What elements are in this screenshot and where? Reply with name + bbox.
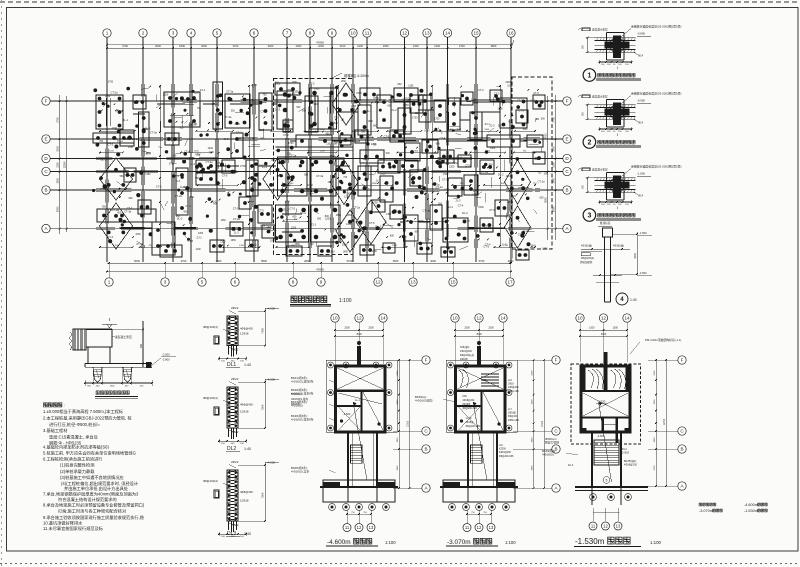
svg-text:1750: 1750: [337, 222, 343, 225]
svg-text:1050: 1050: [198, 233, 204, 235]
svg-text:1450: 1450: [346, 224, 352, 226]
svg-text:CT-2a: CT-2a: [111, 91, 119, 95]
svg-text:CT-1a: CT-1a: [366, 135, 374, 139]
svg-text:JL-3: JL-3: [530, 98, 536, 102]
svg-text:600: 600: [305, 188, 310, 191]
svg-text:2800: 2800: [304, 259, 310, 263]
svg-text:1500: 1500: [484, 129, 490, 131]
svg-text:17: 17: [507, 280, 513, 285]
svg-text:600: 600: [334, 122, 339, 125]
svg-text:15: 15: [473, 31, 479, 36]
svg-text:ZJ-1: ZJ-1: [311, 223, 317, 227]
svg-text:3000: 3000: [601, 333, 607, 336]
svg-text:3500: 3500: [393, 259, 399, 263]
svg-text:7000: 7000: [261, 327, 265, 333]
svg-text:1500: 1500: [259, 129, 265, 132]
svg-text:CT-3a: CT-3a: [284, 183, 292, 187]
svg-text:1500: 1500: [464, 327, 470, 330]
svg-text:950: 950: [260, 138, 265, 141]
svg-text:1450: 1450: [260, 226, 266, 228]
svg-text:1450: 1450: [343, 252, 349, 254]
svg-text:JL-1: JL-1: [364, 230, 370, 234]
svg-text:CT-5: CT-5: [369, 221, 375, 225]
svg-text:3900: 3900: [552, 206, 555, 212]
svg-text:CT-5: CT-5: [261, 110, 267, 114]
svg-text:5: 5: [216, 31, 219, 36]
svg-text:-0.800: -0.800: [637, 32, 645, 36]
svg-text:1500: 1500: [336, 214, 342, 217]
svg-text:12: 12: [357, 525, 362, 530]
svg-text:CT-5: CT-5: [156, 184, 162, 188]
svg-text:-4.600m: -4.600m: [744, 503, 758, 507]
svg-text:-2.800: -2.800: [162, 358, 170, 362]
svg-text:1500: 1500: [356, 92, 362, 95]
svg-text:ZJ-1: ZJ-1: [456, 128, 462, 132]
svg-text:-4.600: -4.600: [597, 434, 605, 438]
svg-text:600: 600: [296, 106, 301, 109]
svg-text:BKZ5(塔6):: BKZ5(塔6):: [624, 459, 637, 463]
svg-text:1450: 1450: [105, 96, 111, 98]
svg-text:1350: 1350: [386, 214, 392, 216]
svg-text:2600: 2600: [383, 44, 389, 48]
svg-text:LL-1: LL-1: [355, 399, 360, 402]
svg-text:DL-3: DL-3: [568, 464, 574, 467]
svg-text:DL-2: DL-2: [101, 158, 107, 162]
svg-text:2000: 2000: [552, 145, 555, 151]
svg-text:4Φ16@200: 4Φ16@200: [499, 451, 512, 454]
svg-text:11.未尽事宜按国家现行规范及标: 11.未尽事宜按国家现行规范及标: [43, 525, 103, 532]
svg-text:1500: 1500: [478, 206, 484, 209]
svg-text:1750: 1750: [108, 81, 114, 84]
svg-text:4Φ8@400: 4Φ8@400: [240, 490, 253, 494]
svg-text:-4.000: -4.000: [267, 378, 275, 382]
svg-text:CT-5: CT-5: [258, 209, 264, 213]
svg-text:3700: 3700: [181, 259, 187, 263]
svg-text:1800: 1800: [179, 44, 185, 48]
svg-text:素混凝土垫层: 素混凝土垫层: [115, 335, 132, 339]
svg-text:CT-4: CT-4: [440, 136, 446, 140]
svg-text:1500: 1500: [344, 327, 350, 330]
svg-text:(2)单桩承载力静载: (2)单桩承载力静载: [60, 468, 95, 475]
svg-text:1450: 1450: [490, 148, 496, 150]
svg-text:1: 1: [106, 31, 109, 36]
svg-text:CT-4: CT-4: [117, 139, 123, 143]
svg-text:CT-4: CT-4: [186, 204, 192, 208]
svg-text:3700: 3700: [122, 44, 128, 48]
svg-text:3: 3: [172, 31, 175, 36]
svg-text:1:40: 1:40: [630, 298, 637, 302]
svg-text:B: B: [680, 447, 683, 452]
svg-text:JL-3: JL-3: [455, 199, 461, 203]
svg-text:1050: 1050: [445, 251, 451, 253]
svg-text:1800: 1800: [372, 183, 378, 185]
svg-text:3900: 3900: [532, 465, 534, 471]
svg-text:1:100: 1:100: [650, 540, 662, 545]
svg-text:Φ14: Φ14: [638, 194, 644, 198]
svg-text:1:40: 1:40: [244, 447, 251, 451]
svg-text:1750: 1750: [372, 201, 378, 204]
svg-text:4Φ16(I级): 4Φ16(I级): [581, 244, 592, 248]
svg-text:1200: 1200: [208, 147, 214, 150]
svg-text:12: 12: [356, 316, 362, 321]
svg-text:CT-5: CT-5: [505, 214, 511, 218]
svg-text:CT-2a: CT-2a: [481, 170, 489, 174]
svg-text:2000: 2000: [397, 370, 399, 376]
svg-text:CT-2: CT-2: [307, 183, 313, 187]
svg-text:DL-2: DL-2: [177, 216, 183, 220]
svg-text:950: 950: [304, 173, 309, 176]
svg-text:600: 600: [129, 197, 134, 200]
svg-text:1: 1: [587, 72, 591, 79]
svg-text:1-LL6: 1-LL6: [466, 418, 473, 420]
svg-text:1750: 1750: [403, 104, 409, 107]
svg-text:2: 2: [142, 31, 145, 36]
svg-text:4-Φ16(O)双向: 4-Φ16(O)双向: [415, 399, 433, 403]
svg-text:1:100: 1:100: [505, 540, 516, 545]
svg-text:1.±0.000相当于黄海高程 7.500m,(本工程标: 1.±0.000相当于黄海高程 7.500m,(本工程标: [43, 408, 123, 415]
svg-text:1800: 1800: [654, 437, 656, 443]
svg-text:11: 11: [465, 525, 470, 530]
svg-text:3000: 3000: [508, 259, 514, 263]
svg-text:JL-1: JL-1: [508, 210, 514, 214]
svg-text:1300: 1300: [56, 162, 59, 168]
svg-text:16: 16: [508, 31, 514, 36]
svg-text:CT-2: CT-2: [494, 91, 500, 95]
svg-text:ZJ-1: ZJ-1: [262, 165, 268, 169]
svg-text:3000: 3000: [155, 44, 161, 48]
svg-text:47800: 47800: [316, 268, 324, 272]
svg-text:13100: 13100: [542, 420, 544, 427]
svg-text:Φ8@400: Φ8@400: [508, 415, 518, 418]
svg-text:3700: 3700: [233, 44, 239, 48]
svg-text:1500: 1500: [392, 245, 398, 247]
svg-text:CT-3a: CT-3a: [212, 102, 220, 106]
svg-text:Φ8@200-1Φ6: Φ8@200-1Φ6: [466, 425, 481, 428]
svg-text:1750: 1750: [169, 163, 175, 166]
svg-text:2200: 2200: [449, 166, 455, 169]
svg-text:CT-1a: CT-1a: [132, 137, 140, 141]
svg-text:1050: 1050: [231, 240, 237, 242]
svg-text:950: 950: [302, 109, 307, 112]
svg-text:Φ8@200-1Φ6: Φ8@200-1Φ6: [499, 455, 514, 458]
svg-text:14: 14: [500, 316, 506, 321]
svg-text:1450: 1450: [285, 202, 291, 204]
svg-text:800: 800: [388, 105, 393, 108]
svg-text:1750: 1750: [240, 165, 246, 168]
svg-text:1450: 1450: [341, 81, 347, 83]
svg-text:CT-4: CT-4: [458, 204, 464, 208]
svg-text:CT-3a: CT-3a: [226, 90, 234, 94]
svg-text:CT-3a: CT-3a: [206, 160, 214, 164]
svg-text:-1.800: -1.800: [637, 172, 645, 176]
svg-text:2Φ22: 2Φ22: [231, 306, 239, 310]
svg-text:4Φ16@9,双向: 4Φ16@9,双向: [291, 397, 308, 401]
svg-text:1350: 1350: [128, 147, 134, 149]
svg-text:CT-5: CT-5: [222, 174, 228, 178]
svg-text:1900: 1900: [56, 177, 59, 183]
svg-text:6: 6: [234, 280, 237, 285]
svg-text:F: F: [681, 358, 684, 363]
svg-text:DL-2: DL-2: [456, 155, 462, 159]
svg-text:-2.500: -2.500: [162, 353, 170, 357]
svg-text:CT-3a: CT-3a: [316, 174, 324, 178]
svg-text:DL-2: DL-2: [462, 211, 468, 215]
svg-text:6.工程桩检测(承台施工前须进行: 6.工程桩检测(承台施工前须进行: [43, 456, 102, 463]
svg-text:DL-2: DL-2: [283, 208, 289, 212]
svg-text:-4.500: -4.500: [639, 271, 647, 275]
svg-text:DL-2: DL-2: [119, 226, 125, 230]
svg-text:焊接加密区: 焊接加密区: [580, 260, 593, 264]
svg-text:3000: 3000: [476, 333, 482, 336]
svg-text:1500: 1500: [589, 327, 595, 330]
svg-text:-4.000: -4.000: [267, 461, 275, 465]
svg-text:CT-2: CT-2: [127, 206, 133, 210]
svg-text:DL-2: DL-2: [300, 211, 306, 215]
svg-text:1350: 1350: [347, 215, 353, 217]
svg-text:1500: 1500: [330, 155, 336, 158]
svg-text:5700: 5700: [347, 259, 353, 263]
svg-text:1200: 1200: [291, 227, 297, 230]
svg-text:1450: 1450: [145, 174, 151, 176]
svg-text:3700: 3700: [56, 117, 59, 123]
svg-text:F: F: [566, 99, 569, 104]
svg-text:CT-2: CT-2: [373, 96, 379, 100]
svg-text:1200: 1200: [266, 226, 272, 229]
svg-text:1100: 1100: [194, 92, 200, 95]
svg-text:3: 3: [164, 280, 167, 285]
svg-text:CT-1a: CT-1a: [423, 209, 431, 213]
svg-text:4.基础砼内掺加防水剂抗渗等级(S6): 4.基础砼内掺加防水剂抗渗等级(S6): [43, 444, 109, 451]
svg-text:CT-2: CT-2: [107, 235, 113, 239]
svg-text:Φ8@200(4): Φ8@200(4): [581, 257, 594, 260]
svg-text:JL-3: JL-3: [367, 109, 373, 113]
svg-text:1750: 1750: [542, 248, 548, 251]
svg-text:12: 12: [601, 316, 607, 321]
svg-text:8: 8: [292, 280, 295, 285]
svg-text:4Φ16@200: 4Φ16@200: [463, 399, 476, 402]
svg-text:CT-2: CT-2: [309, 82, 315, 86]
svg-text:1450: 1450: [372, 251, 378, 253]
svg-text:CT-3a: CT-3a: [150, 130, 158, 134]
svg-text:CT-4: CT-4: [236, 131, 242, 135]
svg-text:13100: 13100: [408, 420, 410, 427]
svg-text:9: 9: [320, 280, 323, 285]
svg-text:5600: 5600: [134, 259, 140, 263]
svg-text:1750: 1750: [472, 193, 478, 196]
svg-text:1900: 1900: [552, 177, 555, 183]
svg-text:F: F: [425, 358, 428, 363]
svg-text:CT-3a: CT-3a: [247, 98, 255, 102]
svg-text:CT-5: CT-5: [519, 109, 525, 113]
svg-text:1600: 1600: [397, 399, 399, 405]
svg-text:ZJ-1: ZJ-1: [175, 179, 181, 183]
svg-text:3000: 3000: [634, 253, 637, 259]
svg-text:12: 12: [603, 524, 608, 529]
svg-text:-1.530m: -1.530m: [744, 509, 758, 513]
svg-text:1050: 1050: [221, 220, 227, 222]
svg-text:4Φ8@400: 4Φ8@400: [240, 402, 253, 406]
svg-text:5: 5: [606, 479, 608, 483]
svg-text:CT-1a: CT-1a: [402, 98, 410, 102]
svg-text:4-Φ18(O): 4-Φ18(O): [542, 453, 554, 457]
svg-text:E: E: [44, 137, 47, 142]
svg-text:600: 600: [541, 117, 546, 120]
svg-text:ZJ-1: ZJ-1: [448, 205, 454, 209]
svg-text:B: B: [44, 188, 47, 193]
svg-text:素混凝土垫层: 素混凝土垫层: [592, 168, 608, 172]
svg-text:1200: 1200: [325, 218, 331, 221]
svg-text:B: B: [424, 447, 427, 452]
svg-text:Φ8@100(4): Φ8@100(4): [203, 325, 218, 329]
svg-text:14: 14: [445, 31, 451, 36]
svg-text:4: 4: [190, 31, 193, 36]
svg-text:13: 13: [489, 525, 494, 530]
svg-text:CT-1a: CT-1a: [233, 206, 241, 210]
svg-text:1450: 1450: [314, 89, 320, 91]
svg-text:14: 14: [624, 316, 630, 321]
svg-text:1450: 1450: [250, 187, 256, 189]
svg-text:1200: 1200: [507, 84, 513, 87]
svg-text:11: 11: [591, 524, 596, 529]
svg-text:7000: 7000: [544, 133, 547, 139]
svg-text:DL-2: DL-2: [498, 172, 504, 176]
svg-text:2.本工程桩基,采用静压GBJ-2022预应力管桩, 桩: 2.本工程桩基,采用静压GBJ-2022预应力管桩, 桩: [43, 415, 132, 422]
svg-text:9: 9: [331, 31, 334, 36]
svg-text:1:100: 1:100: [385, 540, 396, 545]
svg-text:600: 600: [540, 196, 545, 199]
svg-text:5800: 5800: [261, 259, 267, 263]
svg-text:Φ8@200-1Φ6: Φ8@200-1Φ6: [463, 407, 478, 410]
svg-text:1200: 1200: [320, 151, 326, 153]
svg-text:1450: 1450: [351, 106, 357, 108]
svg-text:1500: 1500: [342, 244, 348, 247]
svg-text:1200: 1200: [239, 245, 245, 247]
svg-text::: :: [64, 403, 65, 408]
svg-text:CT-3a: CT-3a: [376, 227, 384, 231]
svg-text:E: E: [565, 137, 568, 142]
svg-text:2100: 2100: [340, 44, 346, 48]
svg-text:-4.600m: -4.600m: [327, 539, 351, 546]
svg-text:-4.000: -4.000: [267, 307, 275, 311]
svg-text:12Φ18: 12Φ18: [240, 331, 249, 335]
svg-text:F: F: [555, 358, 558, 363]
svg-text:900: 900: [140, 343, 143, 348]
svg-text:5700: 5700: [479, 259, 485, 263]
svg-text:CT-5: CT-5: [510, 194, 516, 198]
svg-text:ZJ-1: ZJ-1: [200, 88, 206, 92]
svg-text:CT-1a: CT-1a: [463, 219, 471, 223]
svg-text:2300: 2300: [296, 44, 302, 48]
svg-text:13: 13: [410, 280, 416, 285]
svg-text:1600: 1600: [532, 399, 534, 405]
svg-text:1800: 1800: [531, 245, 537, 247]
svg-text:-0.950: -0.950: [637, 99, 645, 103]
svg-text:7000: 7000: [261, 492, 265, 498]
svg-text:950: 950: [317, 217, 322, 220]
svg-text:1450: 1450: [252, 85, 258, 87]
svg-text:12: 12: [402, 31, 408, 36]
svg-text:4-Φ16(O),双向8条: 4-Φ16(O),双向8条: [291, 380, 314, 384]
svg-text:CT-1a: CT-1a: [538, 180, 546, 184]
svg-text:1500: 1500: [613, 327, 619, 330]
svg-text:4000: 4000: [430, 259, 436, 263]
svg-text:CT-2: CT-2: [108, 142, 114, 146]
svg-text:KZ6a: KZ6a: [482, 380, 488, 382]
svg-text:素混凝土垫层: 素混凝土垫层: [592, 28, 608, 32]
svg-text:47800: 47800: [316, 41, 324, 45]
svg-text:13: 13: [369, 525, 374, 530]
svg-text:12: 12: [375, 280, 381, 285]
svg-text:10: 10: [452, 316, 458, 321]
svg-text:4Φ16@200: 4Φ16@200: [460, 350, 473, 353]
svg-text:桩顶标高: 桩顶标高: [600, 221, 611, 225]
svg-text:塔楼B区-6.200m: 塔楼B区-6.200m: [344, 73, 369, 78]
svg-text:素混凝土垫层: 素混凝土垫层: [592, 95, 608, 99]
svg-text:CT-5: CT-5: [289, 207, 295, 211]
svg-text:12: 12: [476, 316, 482, 321]
svg-text:F: F: [45, 99, 48, 104]
svg-text:12Φ18: 12Φ18: [240, 409, 249, 413]
svg-text:1100: 1100: [326, 143, 332, 146]
svg-text:1200: 1200: [112, 127, 118, 130]
svg-text:JL-3: JL-3: [489, 124, 495, 128]
svg-text:1100: 1100: [209, 151, 215, 154]
svg-text:CT-2a: CT-2a: [175, 194, 183, 198]
svg-text:10: 10: [577, 316, 583, 321]
svg-text:CT-3a: CT-3a: [419, 93, 427, 97]
svg-text:2200: 2200: [413, 44, 419, 48]
svg-text:1500: 1500: [368, 327, 374, 330]
svg-text:预应力管桩: 预应力管桩: [545, 441, 559, 445]
svg-text:1750: 1750: [434, 118, 440, 121]
svg-text:CT-2a: CT-2a: [442, 177, 450, 181]
svg-text:CT-3a: CT-3a: [124, 210, 132, 214]
svg-text:2000: 2000: [654, 370, 656, 376]
svg-text:1050: 1050: [292, 82, 298, 84]
svg-text:CT-2: CT-2: [283, 133, 289, 137]
svg-text:余留桩头锚固长度见(03-2002图1页5页): 余留桩头锚固长度见(03-2002图1页5页): [631, 24, 681, 29]
svg-text:1100: 1100: [196, 248, 202, 251]
svg-text:10: 10: [332, 316, 338, 321]
svg-text:-1.500: -1.500: [639, 231, 647, 235]
svg-text:CT-1a: CT-1a: [136, 242, 144, 246]
svg-text:950: 950: [172, 155, 177, 158]
svg-text:3.基础工程材: 3.基础工程材: [43, 427, 67, 434]
svg-text:1050: 1050: [424, 131, 430, 133]
svg-text:11: 11: [345, 525, 350, 530]
svg-text:3000: 3000: [356, 333, 362, 336]
svg-text:1100: 1100: [220, 241, 226, 244]
svg-text:1350: 1350: [329, 252, 335, 254]
svg-text:3700: 3700: [552, 117, 555, 123]
svg-text:余留桩头锚固长度见(03-2002图1页5页): 余留桩头锚固长度见(03-2002图1页5页): [631, 164, 681, 169]
svg-text:2000: 2000: [56, 145, 59, 151]
svg-text:4Φ8@400: 4Φ8@400: [240, 326, 253, 330]
svg-text:CT-2a: CT-2a: [112, 208, 120, 212]
svg-text:JL-3: JL-3: [501, 243, 507, 247]
svg-text:3700: 3700: [654, 465, 656, 471]
svg-text:800: 800: [325, 215, 330, 218]
svg-text:4: 4: [620, 296, 624, 303]
svg-text:4Φ8@400: 4Φ8@400: [508, 386, 519, 389]
svg-text:8Φ18条: 8Φ18条: [291, 402, 301, 406]
svg-text:800: 800: [124, 138, 129, 141]
svg-text:7: 7: [286, 31, 289, 36]
svg-text:800: 800: [390, 234, 395, 237]
svg-text:10: 10: [350, 31, 356, 36]
svg-text:2Φ18: 2Φ18: [508, 383, 514, 386]
svg-text:3800: 3800: [491, 44, 497, 48]
